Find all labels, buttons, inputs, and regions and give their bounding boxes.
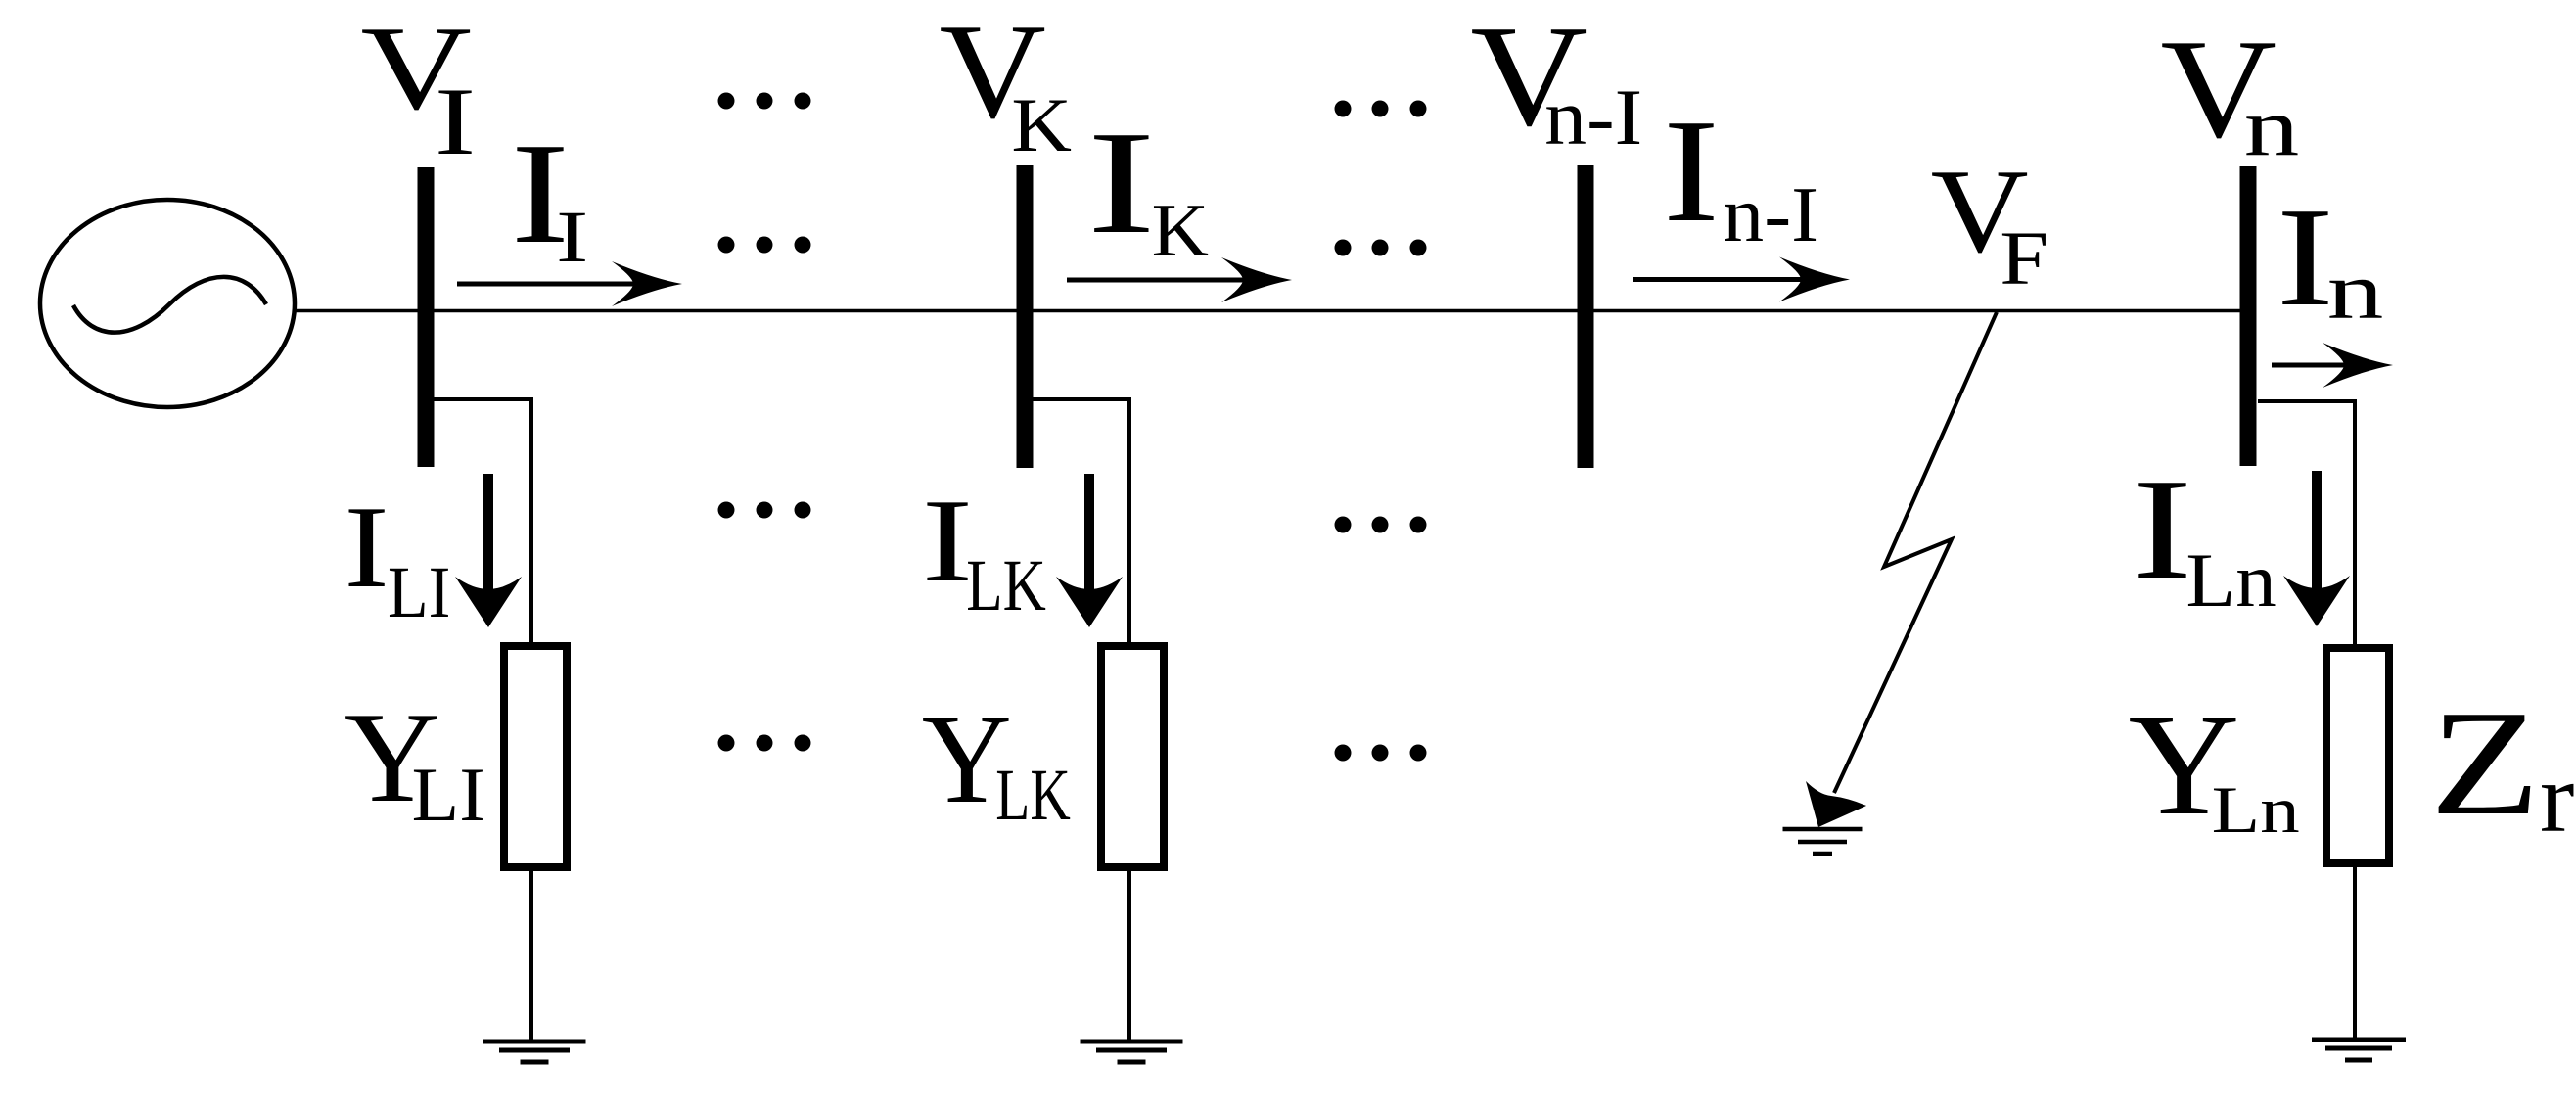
wire: branch from bus V_n to load Y_Ln / Z_r xyxy=(2258,401,2355,650)
arrow for load current I_LI xyxy=(455,474,522,627)
fault lightning bolt at node V_F xyxy=(1806,312,1997,827)
arrow for current I_n-I xyxy=(1633,257,1850,302)
wire: branch from bus V_K to load Y_LK xyxy=(1033,399,1129,648)
resistor box of admittance Y_LI xyxy=(504,646,567,867)
label V of bus V_I xyxy=(360,0,471,137)
label I of current I_K xyxy=(1087,98,1156,267)
label subscript I of V_I xyxy=(435,66,476,176)
label subscript K of I_K xyxy=(1152,187,1209,273)
ellipsis dots lower row 1 (between loads LI and LK) xyxy=(718,502,811,519)
ground below Z_r xyxy=(2312,1040,2406,1060)
bus V_n xyxy=(2240,166,2257,466)
ground at fault point xyxy=(1783,829,1863,854)
ellipsis dots lower row 2 (right of load LK) xyxy=(1335,745,1427,762)
bus V_I xyxy=(418,167,435,467)
label subscript K of V_K xyxy=(1011,81,1072,169)
ellipsis dots lower row 2 (between loads LI and LK) xyxy=(718,735,811,752)
arrow for current I_K xyxy=(1067,257,1292,302)
label Y of admittance Y_LK xyxy=(922,685,1012,832)
label I of current I_n-I xyxy=(1663,86,1720,255)
bus V_n-I xyxy=(1578,165,1594,468)
label subscript LI of Y_LI xyxy=(412,751,485,839)
ground below Y_LK xyxy=(1081,1042,1183,1062)
ellipsis dots top row 1 (between V_I and V_K) xyxy=(718,93,811,110)
label I of current I_I xyxy=(511,111,570,277)
label subscript LK of I_LK xyxy=(966,542,1046,627)
label subscript n of V_n xyxy=(2244,79,2300,175)
bus V_K xyxy=(1017,165,1034,468)
ellipsis dots lower row 1 (right of load LK) xyxy=(1335,517,1427,533)
label subscript n-I of I_n-I xyxy=(1723,169,1818,259)
resistor box of admittance Y_LK xyxy=(1101,646,1164,867)
label I of load current I_LI xyxy=(345,480,390,615)
wire: main horizontal feeder line xyxy=(294,309,2241,312)
ellipsis dots top row 2 (between V_K and V_n-I) xyxy=(1335,240,1427,256)
label subscript Ln of Y_Ln xyxy=(2212,771,2300,848)
label V of bus V_n-I xyxy=(1470,0,1587,160)
label subscript Ln of I_Ln xyxy=(2186,536,2277,625)
arrow for current I_I xyxy=(457,261,682,306)
label subscript LI of I_LI xyxy=(388,549,450,634)
label Y of admittance Y_Ln xyxy=(2128,680,2239,849)
arrow for load current I_Ln xyxy=(2283,471,2350,626)
label subscript r of Z_r xyxy=(2540,740,2575,855)
label subscript LK of Y_LK xyxy=(995,752,1070,837)
resistor box of load impedance Z_r / admittance Y_Ln xyxy=(2326,648,2389,863)
ground below Y_LI xyxy=(483,1042,586,1062)
label V of bus V_n xyxy=(2160,7,2277,169)
label Z of fault impedance Z_r xyxy=(2430,676,2541,850)
wire: branch from bus V_I to load Y_LI xyxy=(434,399,531,648)
wire: load Z_r to ground xyxy=(2353,863,2357,1042)
label subscript I of I_I xyxy=(556,194,588,279)
AC voltage source generator xyxy=(40,200,295,407)
label I of load current I_Ln xyxy=(2132,446,2193,613)
ellipsis dots top row 1 (between V_K and V_n-I) xyxy=(1335,101,1427,117)
ellipsis dots top row 2 (between V_I and V_K) xyxy=(718,237,811,254)
arrow for current I_n xyxy=(2272,343,2393,388)
arrow for load current I_LK xyxy=(1056,474,1123,627)
wire: load Y_LI to ground xyxy=(529,867,533,1042)
label I of load current I_LK xyxy=(922,472,974,609)
label subscript n-I of V_n-I xyxy=(1544,71,1642,163)
label V of bus V_K xyxy=(940,0,1046,150)
label Y of admittance Y_LI xyxy=(345,683,440,832)
label subscript n of I_n xyxy=(2327,245,2384,338)
label subscript F of V_F xyxy=(2000,214,2048,302)
wire: load Y_LK to ground xyxy=(1127,867,1131,1042)
label V of fault node V_F xyxy=(1931,142,2029,280)
label I of current I_n xyxy=(2277,175,2334,338)
